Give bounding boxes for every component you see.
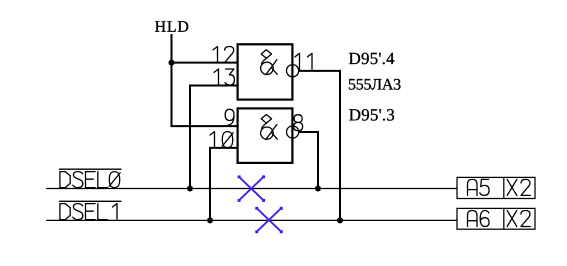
net HLD label <box>155 21 188 32</box>
wire HLD branch to pin 12 <box>172 62 238 64</box>
pin number 9 <box>225 109 234 125</box>
connector X2 contact A6 box <box>457 208 535 229</box>
no-connect cross X on DSEL1 <box>255 207 282 234</box>
NAND gate U1 (D95'.4) body <box>238 44 293 99</box>
junction dot pin8 output/DSEL0 <box>315 186 321 192</box>
connector X2 contact A5 box <box>457 177 535 198</box>
connector pin label A6 <box>468 211 490 227</box>
connector ref label X2 (lower) <box>507 211 530 227</box>
pin number 8 <box>294 115 303 131</box>
no-connect cross X on DSEL0 <box>238 175 266 202</box>
gate U2 designator D95'.3 <box>349 109 394 121</box>
wire net DSEL0 <box>46 188 457 190</box>
junction dot pin10/DSEL1 <box>207 217 213 223</box>
wire U2 output pin 8 to DSEL0 <box>299 132 318 189</box>
NAND gate U2 (D95'.3) body <box>238 108 293 162</box>
pin number 12 <box>213 47 234 63</box>
wire U1 output pin 11 to DSEL1 <box>299 71 340 221</box>
pin number 10 <box>210 132 233 148</box>
wire HLD vertical to pin 9 <box>172 34 238 126</box>
net label DSEL0 <box>60 169 122 187</box>
NAND gate U2 output inversion bubble <box>287 126 299 138</box>
NAND gate U1 output inversion bubble <box>287 65 299 77</box>
wire net DSEL1 <box>46 219 457 221</box>
connector pin label A5 <box>468 179 490 195</box>
junction dot HLD/pin12 <box>169 60 175 66</box>
junction dot pin11 output/DSEL1 <box>337 217 343 223</box>
NAND gate U2 ampersand symbol <box>261 115 278 140</box>
net label DSEL1 <box>60 201 122 219</box>
wire pin 10 to DSEL1 <box>210 148 238 221</box>
NAND gate U1 ampersand symbol <box>261 50 278 75</box>
wire pin 13 to DSEL0 <box>190 86 238 189</box>
pin number 13 <box>214 69 234 85</box>
gate U1 designator D95'.4 <box>349 53 394 64</box>
chip type label 555ЛА3 <box>349 79 401 90</box>
connector ref label X2 (upper) <box>507 179 530 195</box>
pin number 11 <box>295 53 312 69</box>
junction dot pin13/DSEL0 <box>187 186 193 192</box>
